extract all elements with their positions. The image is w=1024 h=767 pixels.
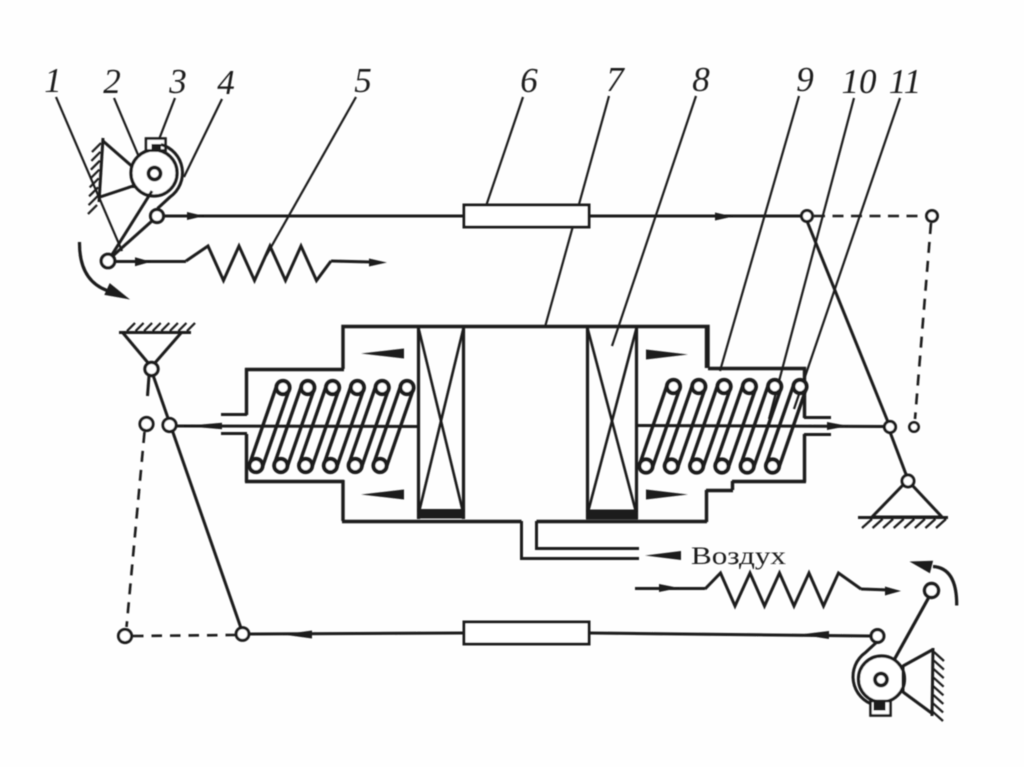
svg-text:Воздух: Воздух bbox=[691, 543, 787, 570]
svg-text:1: 1 bbox=[44, 61, 62, 100]
label 2 bbox=[103, 62, 121, 101]
leader line 2 bbox=[114, 98, 147, 176]
node I (bottom-left) bbox=[118, 629, 131, 642]
air inlet tube bbox=[520, 521, 639, 559]
svg-text:4: 4 bbox=[217, 63, 235, 102]
wall support (fixed frame, top-left) bbox=[88, 138, 103, 214]
svg-text:3: 3 bbox=[168, 62, 187, 101]
clamp block on bottom cam bbox=[871, 701, 891, 716]
link pivot D to support bbox=[890, 432, 907, 477]
follower pivot A bbox=[151, 210, 164, 223]
flow arrow left-top bbox=[361, 349, 404, 359]
valve piston (left) box bbox=[417, 327, 465, 519]
label 9 bbox=[796, 60, 814, 99]
leader line 6 bbox=[483, 97, 523, 215]
rotation arrow (bottom-right) bbox=[910, 561, 957, 606]
dashed wire C2 down to C3 bbox=[915, 223, 931, 419]
arrow end of spring 5 bbox=[369, 259, 387, 267]
label 3 bbox=[168, 62, 187, 101]
node G (dashed link top) bbox=[140, 417, 153, 430]
node H on lever bbox=[163, 418, 176, 431]
lever F to H bbox=[153, 375, 242, 631]
link rod 6 bbox=[464, 205, 589, 227]
rod arrow (right) bbox=[827, 422, 848, 430]
arrow to spring 5 bbox=[135, 257, 151, 266]
leader line 11 bbox=[794, 98, 900, 409]
arrow on top line (right) bbox=[715, 213, 733, 221]
svg-text:6: 6 bbox=[520, 61, 538, 100]
flow arrow left-bottom bbox=[361, 490, 404, 500]
wire after spring 5 bbox=[331, 261, 371, 262]
ceiling hatching bbox=[127, 323, 195, 331]
air flow arrow bbox=[645, 551, 681, 560]
valve piston (left) cross bbox=[419, 330, 463, 512]
arrow bottom line (right) bbox=[800, 631, 829, 639]
label 8 bbox=[692, 60, 710, 99]
svg-text:2: 2 bbox=[103, 62, 121, 101]
link rod (bottom) bbox=[464, 622, 589, 644]
cam disc 2 bbox=[131, 150, 177, 196]
support triangle (left) bbox=[123, 333, 181, 364]
wire J to link rod (bottom) bbox=[249, 633, 464, 634]
leader line 5 bbox=[266, 97, 356, 256]
label 5 bbox=[354, 61, 372, 100]
svg-text:8: 8 bbox=[692, 60, 710, 99]
leader line 7 bbox=[545, 96, 609, 327]
leader line 4 bbox=[184, 99, 222, 177]
return spring coil 9/10 (right) bbox=[639, 380, 806, 473]
cylinder casing 7 outline bbox=[245, 326, 806, 522]
spring 5 zigzag bbox=[186, 246, 331, 281]
piston rod (left) bbox=[176, 425, 418, 429]
bottom spring zigzag bbox=[705, 573, 861, 606]
cam hub bbox=[149, 168, 161, 180]
label 10 bbox=[842, 62, 878, 101]
cam hub (bottom) bbox=[875, 674, 887, 686]
wire pivot A to link 6 bbox=[163, 215, 465, 218]
clamp block 3 on cam bbox=[146, 139, 166, 152]
dashed link I to J bbox=[133, 635, 235, 636]
node J bbox=[236, 628, 249, 641]
leader line 10 bbox=[769, 98, 854, 419]
rod arrow (left) bbox=[184, 423, 222, 429]
label 4 bbox=[217, 63, 235, 102]
return spring coil (left) bbox=[249, 381, 413, 472]
arrow before pivot L bbox=[885, 587, 901, 596]
node C3 bbox=[909, 422, 918, 431]
pivot K bbox=[871, 630, 884, 643]
support triangle (right) bbox=[872, 485, 942, 517]
support pivot F bbox=[145, 362, 158, 375]
leader line 1 bbox=[56, 97, 122, 251]
rod guide stubs (right) bbox=[804, 418, 831, 435]
ground line (right support) bbox=[858, 516, 948, 519]
svg-text:7: 7 bbox=[606, 60, 625, 99]
bracket link cam-to-wall (bottom) bbox=[903, 650, 932, 713]
label 7 bbox=[606, 60, 625, 99]
band around bottom cam bbox=[853, 642, 877, 706]
wire link rod to pivot K bbox=[589, 633, 871, 636]
svg-text:10: 10 bbox=[842, 62, 878, 101]
lever arm 1 (pivot A to pivot B) bbox=[111, 221, 153, 258]
flow arrow right-top bbox=[646, 350, 688, 360]
valve piston 8 (right) cross bbox=[588, 330, 636, 512]
node C2 bbox=[927, 211, 938, 222]
wire pivot B to spring 5 bbox=[115, 260, 186, 263]
label 11 bbox=[889, 62, 921, 101]
arrow on top line (left) bbox=[187, 212, 204, 220]
arrow to bottom spring bbox=[659, 584, 679, 592]
wire link 6 to node C1 bbox=[589, 215, 802, 218]
arrow bottom line (left) bbox=[283, 631, 312, 639]
wire after bottom spring bbox=[861, 589, 890, 590]
node C1 bbox=[802, 211, 813, 222]
stub link F to G bbox=[148, 376, 150, 396]
rotation arrow (top-left) bbox=[79, 242, 130, 300]
ground hatching (right support) bbox=[862, 519, 946, 528]
air label bbox=[691, 543, 787, 570]
leader line 9 bbox=[720, 96, 799, 371]
leader line 8 bbox=[612, 96, 696, 346]
lever pivot B bbox=[101, 254, 115, 268]
valve piston 8 (right) box bbox=[586, 327, 638, 520]
leader line 3 bbox=[158, 98, 175, 142]
flow arrow right-bottom bbox=[646, 490, 688, 500]
svg-text:5: 5 bbox=[354, 61, 372, 100]
ceiling line (left support) bbox=[119, 331, 191, 334]
bracket link wall-to-cam bbox=[100, 141, 134, 197]
lever arm to cam bbox=[111, 191, 153, 257]
svg-text:11: 11 bbox=[889, 62, 921, 101]
lever pivot L to cam bbox=[894, 597, 930, 661]
support pivot E bbox=[902, 475, 914, 487]
label 6 bbox=[520, 61, 538, 100]
dashed wire C1 to C2 bbox=[814, 215, 925, 218]
band 4 around cam bbox=[158, 145, 183, 209]
label 1 bbox=[44, 61, 62, 100]
piston rod (right) bbox=[637, 426, 885, 427]
wall support (bottom-right) bbox=[932, 648, 944, 721]
rod guide stubs (left) bbox=[221, 415, 247, 434]
wire to bottom spring bbox=[635, 587, 705, 590]
lever C1 to pivot D bbox=[807, 221, 890, 427]
pivot D bbox=[884, 421, 895, 432]
pivot L bbox=[925, 584, 939, 598]
dashed link G down bbox=[127, 432, 145, 627]
svg-text:9: 9 bbox=[796, 60, 814, 99]
cam disc (bottom) bbox=[859, 656, 905, 702]
